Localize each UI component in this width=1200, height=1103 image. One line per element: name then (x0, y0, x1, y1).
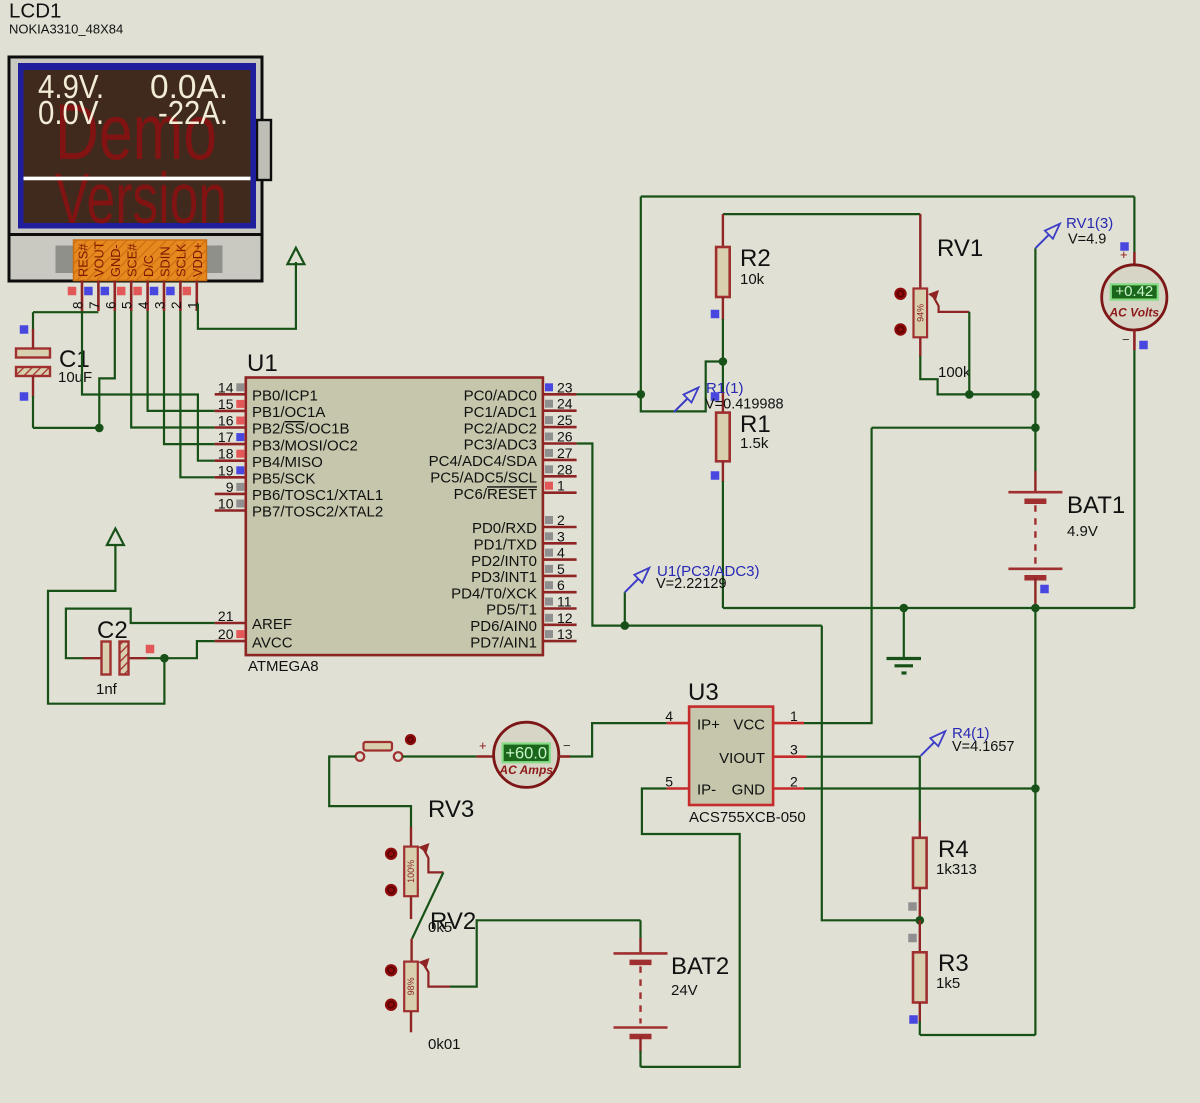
junction RV1 wiper/bottom (965, 390, 974, 399)
svg-text:PB1/OC1A: PB1/OC1A (252, 404, 325, 421)
junction R1/R2 node (719, 357, 728, 366)
svg-text:U3: U3 (688, 679, 719, 706)
wire top rail to voltmeter (641, 195, 1135, 197)
C2 left lead (83, 657, 102, 659)
wire R3 bottom (919, 1021, 921, 1035)
junction on BAT1 column (1031, 390, 1040, 399)
svg-text:VIOUT: VIOUT (719, 750, 765, 767)
svg-text:24: 24 (557, 396, 573, 412)
right ground column down to R3 (1034, 608, 1036, 1035)
svg-text:PD5/T1: PD5/T1 (486, 602, 537, 619)
U1 pin 15 state square (236, 400, 244, 408)
U1 pin 21 stub (215, 622, 246, 625)
ammeter right stub (558, 755, 570, 758)
svg-text:VCC: VCC (733, 716, 765, 733)
junction PC0 node (637, 390, 646, 399)
svg-text:R1: R1 (740, 411, 771, 438)
svg-text:PB3/MOSI/OC2: PB3/MOSI/OC2 (252, 437, 358, 454)
RV2 top lead (410, 939, 412, 962)
svg-text:AC Volts: AC Volts (1109, 305, 1160, 319)
svg-text:Version: Version (55, 160, 227, 239)
svg-text:100%: 100% (406, 860, 416, 883)
wire U3 GND to right column (804, 787, 1035, 789)
wire to C1 top (32, 312, 34, 330)
svg-text:PC0/ADC0: PC0/ADC0 (464, 388, 537, 405)
svg-text:PD0/RXD: PD0/RXD (472, 520, 537, 537)
U1 pin 25 stub (543, 426, 577, 429)
svg-text:PD4/T0/XCK: PD4/T0/XCK (451, 585, 537, 602)
svg-text:10k: 10k (740, 271, 765, 288)
wire LCD pin 8 (RES#) to U1 PB4 (82, 311, 215, 461)
U1 pin 14 state square (236, 383, 244, 391)
R1 top lead (722, 392, 724, 413)
svg-text:IP-: IP- (697, 782, 716, 799)
U3 pin GND (773, 787, 804, 790)
svg-text:94%: 94% (915, 304, 925, 322)
U1 pin 16 stub (215, 426, 246, 429)
svg-text:26: 26 (557, 429, 573, 445)
BAT2 bottom lead (639, 1037, 641, 1053)
LCD pin 4 state square (133, 287, 142, 296)
RV3 up knob (385, 848, 397, 860)
svg-text:18: 18 (218, 446, 234, 462)
potentiometer RV2 body (404, 962, 418, 1012)
svg-text:V=2.22129: V=2.22129 (656, 576, 727, 592)
LCD white separator line (24, 177, 251, 181)
U1 pin 17 stub (215, 443, 246, 446)
wire junction to R1 (722, 362, 724, 394)
svg-text:PC1/ADC1: PC1/ADC1 (464, 404, 537, 421)
R2 bottom state square (711, 310, 720, 319)
wire C1 to LCD pin 7 (VOUT) (33, 311, 98, 313)
svg-text:27: 27 (557, 445, 573, 461)
LCD pin 3 state square (150, 287, 159, 296)
RV2 down knob (385, 999, 397, 1011)
capacitor C2 left plate (102, 642, 111, 675)
BAT1 bottom lead (1034, 578, 1036, 608)
wire U1 AVCC to C2 node (146, 641, 215, 658)
U1 pin 3 stub (543, 542, 577, 545)
svg-text:V=0.419988: V=0.419988 (705, 397, 784, 413)
LCD blue bezel (18, 63, 256, 229)
LCD pin 3 stub (163, 281, 166, 312)
U1 pin 17 state square (236, 433, 244, 441)
svg-text:RV1(3): RV1(3) (1066, 215, 1113, 232)
svg-text:PC3/ADC3: PC3/ADC3 (464, 437, 537, 454)
svg-text:VOUT: VOUT (92, 241, 107, 277)
voltmeter AC Volts (1102, 265, 1167, 330)
RV1 bottom lead loop (920, 356, 969, 394)
U1 pin 3 state square (545, 532, 553, 540)
C2 right lead (129, 657, 148, 659)
RV1 down knob (894, 323, 906, 335)
voltage probe U1(PC3/ADC3) (625, 578, 639, 592)
svg-text:5: 5 (557, 561, 565, 577)
R1 bottom lead (722, 461, 724, 482)
svg-text:1: 1 (790, 708, 798, 724)
svg-text:11: 11 (557, 594, 572, 610)
svg-text:1k5: 1k5 (936, 975, 960, 992)
R3 bottom lead (919, 1003, 921, 1023)
potentiometer RV1 body (914, 289, 928, 338)
R4 bottom lead (919, 888, 921, 920)
BAT2 top lead (639, 938, 641, 953)
svg-text:8: 8 (71, 301, 86, 309)
svg-text:17: 17 (218, 429, 234, 445)
wire LCD pin 5 (SCE#) to U1 PB2 (131, 311, 215, 428)
U1 pin 11 state square (545, 598, 553, 606)
RV2 up knob (385, 964, 397, 976)
svg-text:PC4/ADC4/SDA: PC4/ADC4/SDA (429, 453, 537, 470)
svg-text:0k01: 0k01 (428, 1036, 461, 1053)
U1 pin 5 stub (543, 575, 577, 578)
ground symbol (903, 608, 905, 658)
voltmeter top connection (1133, 197, 1135, 253)
svg-text:ATMEGA8: ATMEGA8 (248, 658, 319, 675)
svg-text:PB0/ICP1: PB0/ICP1 (252, 388, 318, 405)
svg-text:PD1/TXD: PD1/TXD (474, 537, 538, 554)
push button (356, 752, 365, 761)
LCD right side tab (257, 120, 271, 180)
RV2 bottom lead (open) (410, 1011, 412, 1032)
LCD pin 5 state square (117, 287, 126, 296)
junction ground rail (900, 604, 909, 613)
U1 pin 23 stub (543, 393, 577, 396)
svg-text:+60.0: +60.0 (505, 745, 547, 763)
LCD screen (24, 70, 251, 223)
svg-text:SCE#: SCE# (125, 243, 140, 277)
potentiometer RV3 body (404, 847, 418, 897)
C1 top state square (20, 325, 29, 334)
svg-text:PB7/TOSC2/XTAL2: PB7/TOSC2/XTAL2 (252, 504, 383, 521)
svg-text:PD3/INT1: PD3/INT1 (471, 569, 537, 586)
svg-text:5: 5 (665, 774, 673, 790)
wire button to RV3 top (329, 757, 411, 829)
svg-text:20: 20 (218, 626, 234, 642)
RV1 bottom lead (919, 337, 921, 357)
junction C1/GND node (95, 424, 104, 433)
svg-text:AVCC: AVCC (252, 634, 293, 651)
svg-text:R3: R3 (938, 950, 969, 977)
wire BAT1 column to U3 VCC branch (872, 427, 1036, 429)
svg-text:PB2/SS/OC1B: PB2/SS/OC1B (252, 421, 350, 438)
diagonal wire RV3 wiper to RV2 top (412, 872, 443, 938)
svg-text:16: 16 (218, 413, 234, 429)
voltage probe R1(1) (674, 398, 688, 412)
RV3 top lead (410, 827, 412, 847)
U1 pin 23 state square (545, 383, 553, 391)
svg-text:19: 19 (218, 462, 234, 478)
R4 top lead (919, 821, 921, 838)
U1 pin 6 state square (545, 581, 553, 589)
svg-text:GND: GND (732, 782, 766, 799)
U1 pin 10 stub (215, 509, 246, 512)
U1 pin 9 state square (236, 483, 244, 491)
svg-text:6: 6 (103, 301, 118, 309)
U1 pin 11 stub (543, 607, 577, 610)
svg-text:BAT1: BAT1 (1067, 492, 1125, 519)
svg-text:C2: C2 (97, 617, 128, 644)
RV2 wiper arrow (418, 958, 429, 968)
U1 pin 24 stub (543, 409, 577, 412)
svg-text:25: 25 (557, 412, 573, 428)
svg-text:21: 21 (218, 608, 234, 624)
U3 pin IP- (667, 787, 690, 790)
svg-text:−: − (1122, 332, 1130, 347)
svg-text:1nf: 1nf (96, 681, 118, 698)
wire U3 IP- loop to BAT2 bottom (641, 789, 740, 1067)
junction C2/AVCC node (160, 654, 169, 663)
wire R2 bottom to junction (722, 319, 724, 362)
U1 pin 10 state square (236, 500, 244, 508)
U1 pin 18 state square (236, 450, 244, 458)
RV3 bottom lead (open) (410, 896, 412, 919)
svg-text:4.9V: 4.9V (1067, 523, 1098, 540)
U1 pin 28 state square (545, 465, 553, 473)
svg-text:4: 4 (557, 545, 565, 561)
svg-text:R2: R2 (740, 245, 771, 272)
svg-text:3: 3 (790, 742, 798, 758)
battery BAT1 (1008, 491, 1062, 494)
svg-text:VDD+: VDD+ (190, 243, 205, 278)
U1 pin 26 stub (543, 442, 577, 445)
svg-text:PB5/SCK: PB5/SCK (252, 471, 315, 488)
svg-text:LCD1: LCD1 (9, 0, 61, 23)
svg-text:24V: 24V (671, 982, 698, 999)
U1 pin 28 stub (543, 475, 577, 478)
U1 pin 1 state square (545, 482, 553, 490)
svg-text:ACS755XCB-050: ACS755XCB-050 (689, 809, 806, 826)
svg-text:+: + (1120, 247, 1128, 262)
wire BAT2 bottom (639, 1051, 641, 1067)
svg-text:PD6/AIN0: PD6/AIN0 (470, 618, 537, 635)
U1 pin 12 stub (543, 623, 577, 626)
svg-text:1k313: 1k313 (936, 861, 977, 878)
svg-text:AC Amps: AC Amps (498, 763, 553, 777)
C1 bottom state square (20, 392, 29, 401)
U1 pin 20 stub (215, 640, 246, 643)
U1 pin 6 stub (543, 591, 577, 594)
svg-text:2: 2 (790, 774, 798, 790)
LCD pin 5 stub (130, 281, 133, 312)
svg-text:5: 5 (120, 301, 135, 309)
LCD pin 8 stub (81, 281, 84, 312)
svg-text:GND-: GND- (108, 244, 123, 277)
R1 bottom state square (711, 471, 720, 480)
voltmeter - state square (1139, 341, 1148, 350)
voltage probe RV1(3) (1035, 234, 1049, 248)
wire C1 bottom down (32, 396, 34, 428)
wire LCD pin 6 (GND-) down to ground node (99, 311, 115, 428)
wire RV1 to BAT1 column (969, 393, 1035, 395)
svg-text:+0.42: +0.42 (1115, 283, 1153, 300)
resistor R3 (913, 952, 927, 1002)
wire C1 bottom to ground node (33, 427, 99, 429)
U1 pin 9 stub (215, 493, 246, 496)
svg-text:7: 7 (87, 301, 102, 309)
U1 pin 4 stub (543, 558, 577, 561)
junction BAT1 bottom on ground rail (1031, 604, 1040, 613)
R3 top lead (919, 920, 921, 952)
svg-text:SDIN: SDIN (157, 246, 172, 277)
R4 bottom state square (908, 902, 917, 911)
junction U3 GND on right column (1031, 784, 1040, 793)
capacitor C1 top plate (16, 349, 50, 358)
wire LCD pin 1 (VDD+) to power arrow (197, 262, 296, 329)
wire to BAT2 top (639, 920, 641, 939)
svg-text:10: 10 (218, 496, 234, 512)
svg-text:3: 3 (153, 301, 168, 309)
probe R1(1) state square (711, 392, 720, 401)
svg-text:V=4.9: V=4.9 (1068, 232, 1106, 248)
wire button to ammeter (402, 755, 476, 757)
LCD pin 6 state square (101, 287, 110, 296)
svg-text:13: 13 (557, 626, 573, 642)
wire U1 PC3 to divider net (577, 444, 822, 626)
svg-text:PB6/TOSC1/XTAL1: PB6/TOSC1/XTAL1 (252, 487, 383, 504)
voltmeter + state square (1120, 242, 1129, 251)
RV1 wiper arrow (928, 290, 939, 300)
U1 pin 18 stub (215, 459, 246, 462)
svg-text:23: 23 (557, 379, 573, 395)
ammeter left stub (476, 755, 493, 758)
capacitor C2 right plate (polarised hatch) (120, 642, 129, 675)
LCD connector slot (56, 246, 223, 274)
U1 pin 2 stub (543, 526, 577, 529)
U3 pin IP+ (667, 722, 690, 725)
svg-text:10uF: 10uF (58, 369, 92, 386)
svg-text:6: 6 (557, 577, 565, 593)
LCD frame divider (9, 233, 262, 236)
wire divider net to R4/R3 junction (822, 626, 920, 921)
svg-text:4: 4 (665, 708, 673, 724)
svg-text:15: 15 (218, 396, 234, 412)
LCD pin 1 stub (196, 281, 199, 312)
U1 pin 25 state square (545, 416, 553, 424)
LCD pin 7 stub (97, 281, 100, 312)
svg-text:SCLK: SCLK (174, 243, 189, 277)
svg-text:RES#: RES# (75, 243, 90, 277)
svg-text:28: 28 (557, 461, 573, 477)
svg-text:RV2: RV2 (430, 908, 476, 935)
U3 pin VIOUT (773, 755, 807, 758)
svg-text:14: 14 (218, 379, 234, 395)
probe stem wire (624, 592, 626, 625)
svg-text:D/C: D/C (141, 255, 156, 277)
U1 pin 24 state square (545, 400, 553, 408)
wire BAT1 column (1034, 248, 1036, 472)
U1 pin 27 state square (545, 449, 553, 457)
U1 pin 13 state square (545, 630, 553, 638)
RV1 up knob (894, 288, 906, 300)
wire R3 bottom to right column (920, 1034, 1036, 1036)
R3 top state square (908, 934, 917, 943)
svg-text:PB4/MISO: PB4/MISO (252, 454, 323, 471)
wire riser to top rail (640, 197, 642, 395)
svg-text:PD7/AIN1: PD7/AIN1 (470, 634, 537, 651)
svg-text:V=4.1657: V=4.1657 (952, 739, 1015, 755)
ammeter AC Amps (494, 722, 559, 787)
svg-text:9: 9 (226, 479, 234, 495)
U1 pin 19 state square (236, 466, 244, 474)
wire U3 VIOUT to R4 (807, 757, 920, 822)
U1 pin 12 state square (545, 614, 553, 622)
svg-text:98%: 98% (406, 977, 416, 995)
svg-text:PD2/INT0: PD2/INT0 (471, 553, 537, 570)
svg-text:BAT2: BAT2 (671, 953, 729, 980)
svg-text:2: 2 (557, 512, 565, 528)
C1 top lead (32, 329, 34, 349)
wire down to U3 VCC (804, 428, 872, 723)
U1 pin 15 stub (215, 410, 246, 413)
U1 pin 16 state square (236, 417, 244, 425)
LCD pin 7 state square (84, 287, 93, 296)
wire ammeter to U3 IP+ (570, 723, 667, 756)
ground rail (723, 607, 1135, 609)
op-amp/mcu U1 body (246, 378, 543, 656)
wire R1 bottom to ground rail (722, 481, 724, 608)
U1 pin 1 stub (543, 491, 577, 494)
LCD pin 2 state square (166, 287, 175, 296)
LCD pin 4 stub (146, 281, 149, 312)
svg-text:IP+: IP+ (697, 716, 720, 733)
power symbol near LCD (287, 248, 304, 264)
svg-text:PC2/ADC2: PC2/ADC2 (464, 420, 537, 437)
wire C2 node to power arrow (48, 545, 164, 704)
U1 pin 14 stub (215, 393, 246, 396)
BAT1 bottom state square (1040, 585, 1049, 594)
LCD1 body frame (9, 57, 262, 281)
LCD pin 8 state square (68, 287, 77, 296)
U1 pin 26 state square (545, 433, 553, 441)
junction R4/R3 (916, 916, 925, 925)
svg-text:R4: R4 (938, 836, 969, 863)
svg-text:-22A.: -22A. (158, 94, 228, 131)
wire LCD pin 2 (SCLK) to U1 PB5 (180, 311, 214, 477)
svg-text:U1: U1 (247, 350, 278, 377)
RV3 down knob (385, 884, 397, 896)
svg-text:12: 12 (557, 610, 573, 626)
LCD pin 1 state square (183, 287, 192, 296)
battery BAT2 (614, 952, 668, 955)
U3 pin VCC (773, 722, 804, 725)
R2 bottom lead (722, 297, 724, 320)
svg-text:1.5k: 1.5k (740, 435, 769, 452)
svg-text:AREF: AREF (252, 616, 292, 633)
voltmeter top stub (1133, 252, 1136, 265)
U1 pin 27 stub (543, 459, 577, 462)
U1 pin 20 state square (236, 630, 244, 638)
wire voltmeter bottom to ground rail (1133, 350, 1135, 608)
svg-text:RV1: RV1 (937, 235, 983, 262)
voltage probe R4(1) (921, 742, 935, 756)
U1 pin 13 stub (543, 640, 577, 643)
U1 pin 2 state square (545, 516, 553, 524)
resistor R1 (716, 413, 730, 462)
svg-text:NOKIA3310_48X84: NOKIA3310_48X84 (9, 22, 123, 37)
U1 pin 19 stub (215, 476, 246, 479)
svg-text:1: 1 (557, 478, 565, 494)
LCD pin 2 stub (179, 281, 182, 312)
resistor R2 (716, 247, 730, 297)
current sensor U3 body (689, 707, 773, 805)
svg-text:PC6/RESET: PC6/RESET (454, 486, 537, 503)
svg-text:3: 3 (557, 528, 565, 544)
RV3 wiper arrow (418, 843, 429, 853)
power symbol near C2 (107, 529, 124, 546)
wire U1 PC0 to divider (577, 393, 641, 395)
BAT1 top lead (1034, 471, 1036, 492)
